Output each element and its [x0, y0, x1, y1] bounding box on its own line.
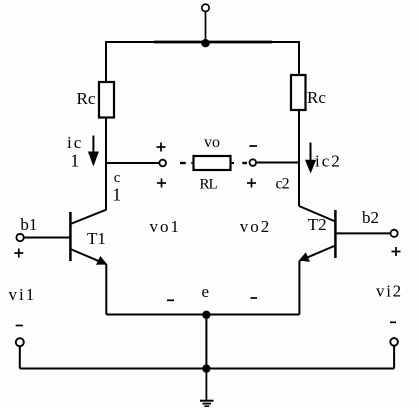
svg-text:Rc: Rc: [77, 89, 96, 108]
terminal b1 circle: [16, 234, 23, 241]
svg-text:ic2: ic2: [315, 152, 342, 171]
vo left terminal circle: [159, 160, 166, 167]
current arrow ic2: [305, 143, 316, 174]
terminal b2 circle: [391, 230, 398, 237]
wire bottom rail: [20, 368, 394, 370]
svg-text:e: e: [202, 282, 210, 301]
svg-text:T1: T1: [87, 229, 106, 248]
dash left of RL: [180, 162, 186, 164]
svg-text:b1: b1: [20, 215, 37, 234]
current arrow ic1: [88, 136, 99, 167]
svg-text:1: 1: [70, 151, 79, 171]
svg-text:vi1: vi1: [9, 285, 37, 304]
vo right terminal circle: [250, 159, 257, 166]
transistor T1 emitter arrow: [96, 256, 107, 265]
plus below b2: [392, 247, 401, 256]
wire T2 emitter down: [298, 261, 300, 315]
wire top rail thick middle: [154, 41, 272, 44]
ground: [200, 401, 214, 407]
wire e to bottom rail: [205, 315, 207, 369]
svg-text:c2: c2: [276, 176, 290, 193]
minus above vi2 terminal: [390, 321, 396, 323]
svg-text:vi2: vi2: [376, 282, 403, 301]
supply terminal circle: [202, 4, 209, 11]
svg-text:vo: vo: [204, 134, 220, 151]
wire T1 emitter down: [105, 264, 107, 315]
svg-text:1: 1: [112, 184, 121, 204]
transistor T1 emitter lead: [70, 249, 106, 264]
transistor T1 base bar: [69, 212, 72, 261]
wire vo terminal to c2: [256, 162, 299, 164]
junction dot bottom: [202, 364, 210, 372]
dash right of RL: [242, 162, 247, 164]
minus right of e: [251, 297, 258, 299]
transistor T2 emitter lead: [299, 246, 335, 261]
minus above right vo terminal: [249, 145, 257, 147]
wire left collector rail: [105, 118, 107, 210]
svg-text:b2: b2: [362, 208, 379, 227]
plus below left vo terminal: [157, 179, 166, 188]
svg-text:Rc: Rc: [307, 88, 326, 107]
svg-text:ic: ic: [67, 133, 83, 152]
wire top rail: [106, 42, 299, 82]
junction dot top: [201, 39, 209, 47]
wire vi2 stem: [393, 346, 395, 369]
svg-text:vo2: vo2: [240, 217, 271, 236]
plus above left vo terminal: [157, 143, 166, 152]
junction dot e: [202, 311, 210, 319]
transistor T2 collector lead: [299, 206, 335, 222]
wire ground stem: [205, 369, 207, 401]
wire b2 base lead: [335, 232, 390, 234]
wire c1 to vo terminal: [106, 162, 159, 164]
svg-text:T2: T2: [308, 215, 327, 234]
minus left of e: [167, 299, 174, 301]
wire right collector rail: [298, 110, 300, 206]
transistor T2 emitter arrow: [299, 252, 310, 262]
resistor Rc left: [99, 82, 114, 118]
svg-text:RL: RL: [200, 177, 218, 193]
plus below b1: [14, 249, 23, 258]
plus below right vo terminal: [247, 179, 256, 188]
wire emitter rail: [106, 314, 299, 316]
wire supply stem: [205, 12, 207, 43]
wire b1 base lead: [24, 237, 71, 239]
resistor RL box: [191, 156, 234, 170]
terminal vi2 circle: [390, 338, 398, 346]
minus above vi1 terminal: [16, 325, 23, 327]
terminal vi1 circle: [16, 338, 24, 346]
svg-text:vo1: vo1: [150, 217, 182, 236]
transistor T2 base bar: [334, 210, 337, 258]
resistor Rc right: [291, 75, 306, 110]
transistor T1 collector lead: [70, 210, 106, 224]
wire vi1 stem: [19, 346, 21, 369]
